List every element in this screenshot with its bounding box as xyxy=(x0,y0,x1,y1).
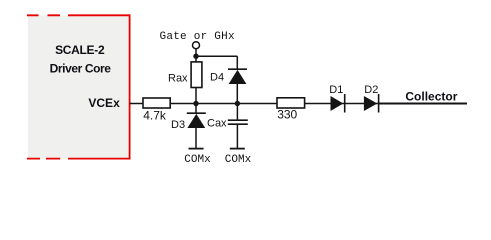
svg-text:D2: D2 xyxy=(364,84,378,96)
label Driver Core xyxy=(50,62,112,76)
value label 4.7k xyxy=(143,109,167,123)
resistor Rax xyxy=(191,62,202,88)
label Rax xyxy=(168,73,188,85)
pin label VCEx xyxy=(88,96,120,110)
diode D3 (triangle) xyxy=(187,114,205,128)
wire D4 bottom lead xyxy=(236,84,238,104)
label D1 xyxy=(329,84,343,96)
wire gate terminal down xyxy=(195,49,197,56)
wire D4 top lead xyxy=(236,56,238,69)
net label COMx (right) xyxy=(225,154,252,166)
label D4 xyxy=(210,72,224,84)
svg-text:330: 330 xyxy=(277,108,297,122)
label SCALE-2 xyxy=(55,43,105,57)
diode D2 (cathode bar) xyxy=(378,94,380,113)
SCALE-2 driver core block (grey fill) xyxy=(28,16,130,159)
wire main horizontal VCEx to collector xyxy=(130,103,467,105)
svg-text:4.7k: 4.7k xyxy=(143,109,167,123)
wire Rax top lead xyxy=(195,56,197,62)
junction main wire / D4 / Cax xyxy=(235,101,240,106)
wire gate node to D4 branch xyxy=(196,55,237,57)
diode D1 (triangle) xyxy=(331,96,344,111)
block border bottom (red dashed) xyxy=(27,158,130,160)
ground tick COMx (left) xyxy=(189,148,204,150)
svg-text:D3: D3 xyxy=(171,119,185,131)
svg-text:VCEx: VCEx xyxy=(88,96,120,110)
wire Cax bottom lead xyxy=(236,124,238,148)
gate terminal circle xyxy=(193,42,200,49)
svg-text:Driver Core: Driver Core xyxy=(50,62,112,76)
ground tick COMx (right) xyxy=(230,148,245,150)
label D3 xyxy=(171,119,185,131)
svg-text:D4: D4 xyxy=(210,72,224,84)
junction gate node xyxy=(193,54,198,59)
svg-text:Collector: Collector xyxy=(405,89,457,103)
junction main wire / Rax / D3 xyxy=(193,101,198,106)
net label COMx (left) xyxy=(184,154,211,166)
svg-text:D1: D1 xyxy=(329,84,343,96)
svg-text:Cax: Cax xyxy=(207,118,227,130)
node label Collector xyxy=(405,89,457,103)
diode D1 (cathode bar) xyxy=(344,94,346,113)
resistor R 330 body xyxy=(277,98,305,108)
label Cax xyxy=(207,118,227,130)
block border right (red solid) xyxy=(129,14,131,159)
svg-text:COMx: COMx xyxy=(225,154,252,166)
block border top (red dashed) xyxy=(27,14,130,16)
svg-text:COMx: COMx xyxy=(184,154,211,166)
wire D3 bottom lead xyxy=(195,128,197,149)
diode D2 (triangle) xyxy=(364,96,377,111)
capacitor Cax (bottom plate) xyxy=(228,123,248,125)
label D2 xyxy=(364,84,378,96)
svg-text:SCALE-2: SCALE-2 xyxy=(55,43,105,57)
diode D4 (triangle) xyxy=(229,70,247,84)
capacitor Cax (top plate) xyxy=(228,119,248,121)
node Gate or GHx label xyxy=(160,31,236,43)
svg-text:Rax: Rax xyxy=(168,73,188,85)
diode D3 (cathode bar) xyxy=(187,112,206,114)
wire collector segment (thick) xyxy=(379,103,467,105)
value label 330 xyxy=(277,108,297,122)
resistor R 4.7k body xyxy=(143,98,170,108)
wire Cax top lead xyxy=(236,104,238,121)
diode D4 (cathode bar) xyxy=(228,68,247,70)
wire Rax bottom lead xyxy=(195,88,197,104)
wire D3 top lead xyxy=(195,104,197,114)
